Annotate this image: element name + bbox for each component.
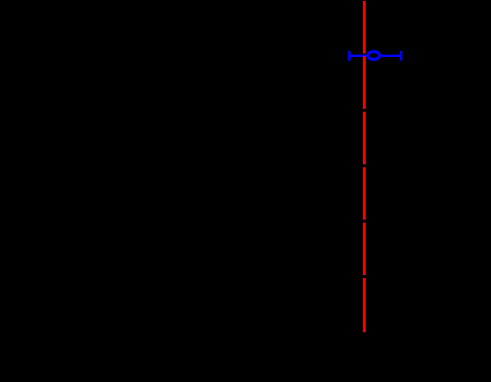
red dashed line bottom tip	[363, 330, 366, 332]
open circle marker	[368, 52, 379, 60]
errorbar right cap	[400, 51, 403, 61]
red dashed vertical line	[363, 1, 366, 332]
errorbar left cap	[348, 51, 351, 61]
errorbar horizontal line	[349, 55, 401, 57]
